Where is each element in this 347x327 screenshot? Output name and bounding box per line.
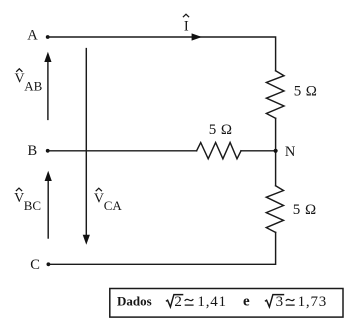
svg-text:Dados: Dados xyxy=(117,294,152,309)
current arrowhead I xyxy=(192,33,202,40)
arrow Vbc shaft xyxy=(47,180,49,239)
svg-text:1,41: 1,41 xyxy=(197,294,226,310)
svg-text:5: 5 xyxy=(293,202,301,218)
simeq symbol 1 xyxy=(185,299,194,301)
svg-text:AB: AB xyxy=(24,79,42,94)
simeq symbol 2 xyxy=(286,299,295,301)
svg-text:CA: CA xyxy=(104,198,123,213)
svg-text:Ω: Ω xyxy=(305,202,316,218)
node C xyxy=(47,262,51,266)
svg-text:3: 3 xyxy=(276,294,284,310)
resistor R3 5ohm bottom right xyxy=(266,186,283,233)
svg-text:BC: BC xyxy=(24,198,41,213)
svg-text:V: V xyxy=(94,192,104,207)
svg-text:C: C xyxy=(30,257,40,273)
arrowhead Vca xyxy=(83,235,90,245)
svg-text:5: 5 xyxy=(294,83,302,99)
arrow Vab shaft xyxy=(47,61,49,120)
svg-text:5: 5 xyxy=(209,122,217,138)
svg-text:2: 2 xyxy=(174,294,182,310)
wire right middle xyxy=(275,118,277,185)
svg-text:N: N xyxy=(285,144,296,160)
hat of Vbc xyxy=(16,188,22,191)
svg-text:B: B xyxy=(28,143,38,159)
svg-text:I: I xyxy=(184,19,189,35)
svg-text:Ω: Ω xyxy=(306,83,317,99)
resistor R2 5ohm horizontal xyxy=(197,143,241,159)
hat of Vca xyxy=(96,188,102,191)
hat of Vab xyxy=(16,69,22,72)
wire phase B right xyxy=(241,150,276,152)
svg-text:1,73: 1,73 xyxy=(298,294,327,310)
arrow Vca shaft xyxy=(85,49,87,236)
wire phase A top xyxy=(48,37,276,71)
resistor R1 5ohm top right xyxy=(266,71,284,119)
sqrt3 radical sign xyxy=(265,295,284,307)
node B xyxy=(46,149,50,153)
wire phase C bottom xyxy=(48,232,275,264)
svg-text:V: V xyxy=(15,72,25,87)
node N junction xyxy=(274,149,278,153)
hat of I xyxy=(183,14,189,17)
node A xyxy=(46,35,50,39)
sqrt2 radical sign xyxy=(166,295,183,307)
arrowhead Vbc xyxy=(45,171,52,181)
dados box frame xyxy=(110,289,343,318)
arrowhead Vab xyxy=(44,52,51,62)
svg-text:A: A xyxy=(27,28,38,44)
svg-text:e: e xyxy=(243,293,250,309)
svg-text:Ω: Ω xyxy=(221,122,232,138)
wire phase B left xyxy=(48,150,197,152)
